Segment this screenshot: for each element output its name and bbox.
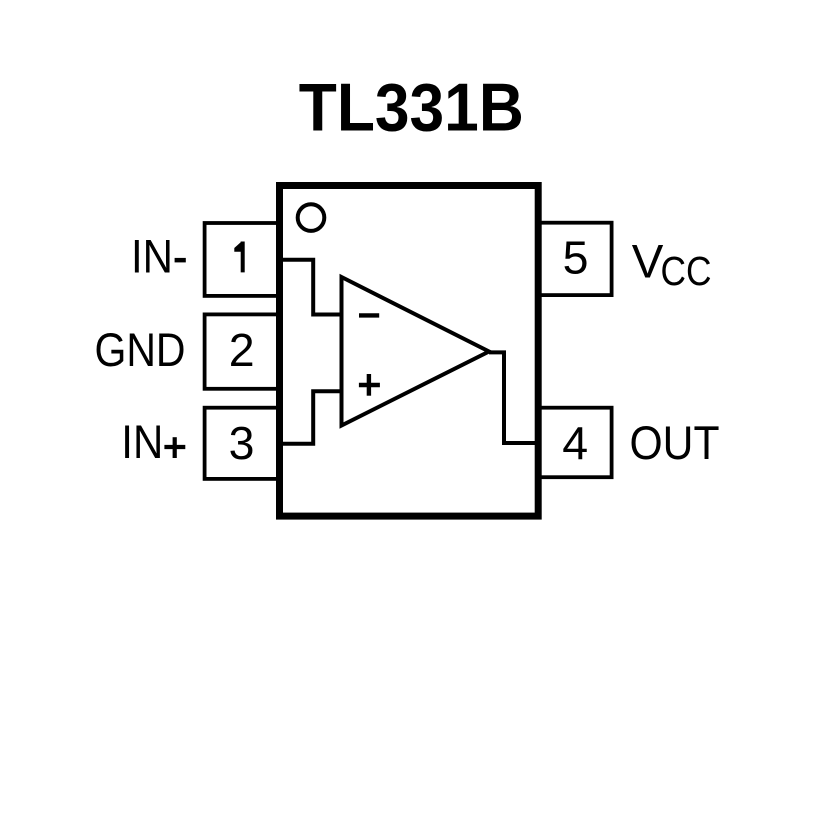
svg-text:OUT: OUT [630,417,720,470]
svg-text:CC: CC [661,248,712,294]
svg-text:IN: IN [121,416,163,469]
svg-text:3: 3 [229,417,255,469]
pin 3 box [205,408,280,479]
svg-text:IN: IN [131,231,173,284]
wire output to pin4 [489,352,541,443]
pin-1 indicator circle [298,204,325,231]
wire pin3 to non-inverting input [277,391,342,444]
wire pin1 to inverting input [277,260,342,315]
svg-text:TL331B: TL331B [299,70,524,146]
comparator triangle [342,277,490,426]
plus symbol [359,383,380,387]
pin 4 box [538,408,612,478]
svg-text:5: 5 [563,231,589,283]
pin 5 box [538,223,612,295]
svg-text:GND: GND [95,324,186,377]
pin 1 box [205,223,280,296]
svg-text:2: 2 [229,324,255,376]
svg-text:4: 4 [562,417,588,469]
pin 2 box [205,314,280,388]
minus symbol [359,313,379,317]
pin number 1 [234,242,244,273]
op-amp U1 package body [280,186,539,517]
svg-text:V: V [632,236,664,289]
